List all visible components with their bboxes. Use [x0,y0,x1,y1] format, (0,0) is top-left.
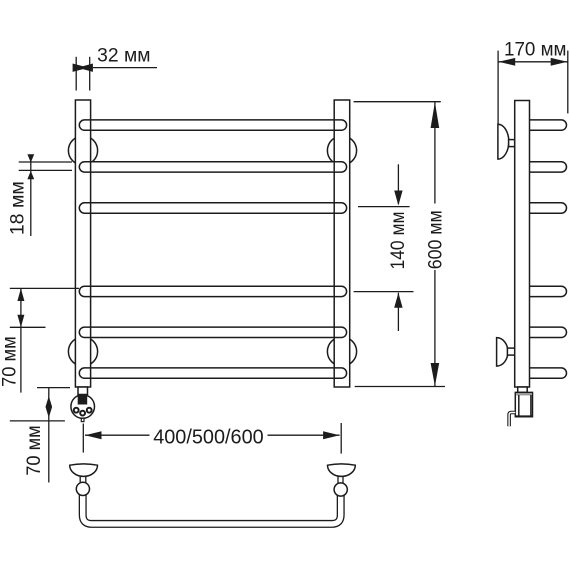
svg-text:70 мм: 70 мм [24,425,45,476]
svg-text:70 мм: 70 мм [0,336,21,387]
svg-text:170 мм: 170 мм [504,39,567,60]
svg-text:32 мм: 32 мм [97,46,150,67]
svg-text:140 мм: 140 мм [388,212,409,270]
svg-text:18 мм: 18 мм [7,181,28,235]
svg-text:400/500/600: 400/500/600 [153,425,264,448]
svg-text:600 мм: 600 мм [426,210,447,269]
